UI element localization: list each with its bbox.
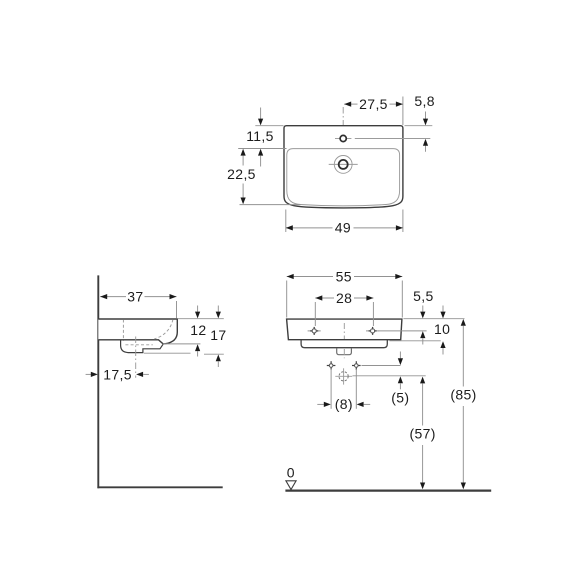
dimension 37 (depth) (100, 288, 176, 318)
right fixing hole symbol (352, 361, 361, 370)
centerline (front view) (343, 323, 345, 358)
svg-text:55: 55 (336, 268, 352, 284)
dimension 17 (rim to trap bottom) (144, 306, 227, 368)
hidden bowl bottom dashed (side view) (125, 344, 152, 346)
dimension 5,5 (rim to tap hole) (378, 288, 464, 344)
dimension 49 (bowl width) (286, 210, 403, 236)
dimension 55 (width) (287, 268, 403, 317)
svg-text:37: 37 (127, 288, 143, 304)
left fixing hole symbol (327, 361, 336, 370)
svg-text:5,8: 5,8 (414, 93, 435, 109)
dimension (5) (fixing holes to drain axis) (391, 352, 409, 406)
inner bowl outline (top view) (287, 149, 400, 206)
floor line (front view) (285, 490, 491, 492)
svg-text:28: 28 (336, 290, 352, 306)
dimension 5,8 (top edge to tap hole) (405, 93, 435, 152)
dimension 17,5 (wall to drain axis) (86, 366, 149, 382)
dimension 22,5 (bowl edge to bowl bottom) (227, 149, 300, 205)
dimension 27,5 (tap hole to right edge) (344, 96, 403, 125)
svg-text:0: 0 (287, 465, 295, 481)
svg-text:(85): (85) (450, 387, 476, 403)
wall line (side view) (97, 275, 99, 488)
basin underside lip (front view) (301, 340, 387, 348)
centerline through tap hole and drain (top view) (342, 107, 344, 178)
left tap hole position symbol (308, 327, 321, 335)
drain crosshair (top view) (329, 163, 358, 165)
svg-text:27,5: 27,5 (359, 96, 388, 112)
drain hole bold circle (top view) (339, 160, 348, 169)
floor line (side view) (97, 486, 222, 488)
svg-text:5,5: 5,5 (413, 288, 434, 304)
dimension 12 (rim to underside) (163, 306, 224, 357)
tap hole (top view) (335, 135, 351, 141)
svg-text:17,5: 17,5 (103, 366, 132, 382)
dimension (8) (fixing hole spacing) (317, 369, 370, 412)
svg-text:49: 49 (335, 220, 351, 236)
washbasin outer outline (top view) (284, 126, 403, 208)
drain axis reference line (353, 375, 426, 377)
fixing hole reference line (362, 365, 401, 367)
svg-text:17: 17 (210, 327, 226, 343)
TOP VIEW (227, 93, 435, 235)
drain outlet stub (front view) (337, 348, 352, 355)
dimension 10 (rim to basin bottom) (390, 306, 451, 355)
svg-text:11,5: 11,5 (246, 128, 274, 144)
drain trap cup (side view) (121, 340, 164, 353)
dimension 28 (tap hole spacing) (315, 290, 373, 326)
dimension (85) (rim height) (450, 319, 476, 489)
datum zero label (287, 465, 295, 481)
dimension (57) (drain axis height) (409, 377, 435, 490)
svg-text:22,5: 22,5 (227, 166, 256, 182)
svg-text:10: 10 (434, 321, 450, 337)
drain connection symbol (front view) (335, 368, 352, 384)
washbasin profile outline (side view) (98, 319, 177, 344)
hidden bowl contour dashed vertical (side view) (122, 320, 124, 342)
SIDE VIEW (86, 275, 227, 488)
svg-text:(8): (8) (335, 396, 353, 412)
hidden bowl slope dashed (side view) (154, 320, 173, 339)
svg-text:12: 12 (190, 322, 206, 338)
svg-text:(5): (5) (391, 390, 409, 406)
datum triangle symbol (286, 481, 296, 490)
svg-text:(57): (57) (409, 426, 435, 442)
dimension 11,5 (top edge to bowl edge) (238, 108, 286, 167)
right tap hole position symbol (366, 327, 379, 335)
washbasin outline (front view) (287, 319, 402, 340)
tap hole centerline extension to right (355, 138, 431, 140)
drain outer circle (top view) (334, 156, 352, 174)
drain centerline (side view) (135, 337, 137, 378)
FRONT VIEW (285, 268, 491, 490)
